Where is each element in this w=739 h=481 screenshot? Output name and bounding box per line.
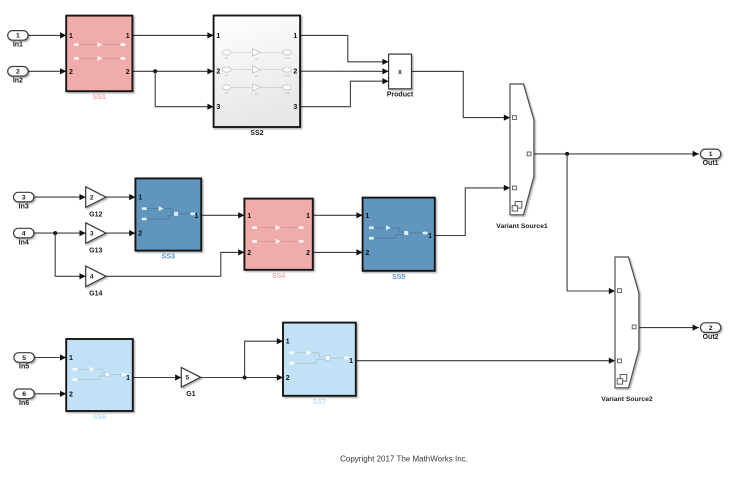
svg-text:1: 1	[126, 33, 130, 40]
svg-text:In3: In3	[19, 203, 29, 210]
wire G1 to SS7 in2	[201, 377, 283, 379]
subsystem SS5	[363, 198, 435, 271]
svg-text:1: 1	[709, 151, 713, 158]
wire Variant Source2 to Out2	[639, 327, 699, 329]
svg-text:G1: G1	[186, 391, 195, 398]
svg-text:1: 1	[286, 339, 290, 346]
svg-text:2: 2	[293, 69, 297, 76]
svg-text:1: 1	[69, 355, 73, 362]
svg-text:1: 1	[16, 33, 20, 40]
svg-text:In4: In4	[19, 239, 29, 246]
svg-text:Variant Source1: Variant Source1	[496, 223, 548, 230]
svg-text:2: 2	[247, 250, 251, 257]
wire branch to Variant Source2 in1	[567, 154, 615, 291]
svg-text:2: 2	[90, 195, 94, 202]
svg-text:1: 1	[306, 213, 310, 220]
wire branch to SS2 in3	[155, 71, 213, 106]
wire In2 to SS1	[28, 70, 66, 72]
junction on In4 wire	[53, 231, 57, 235]
svg-text:4: 4	[22, 230, 26, 237]
wire In4 to G13	[34, 232, 86, 234]
wire SS7 to Variant Source2 in2	[356, 360, 615, 362]
inport In5	[14, 353, 34, 363]
wire SS5 to Variant Source1 in2	[435, 188, 510, 236]
svg-text:G12: G12	[89, 211, 102, 218]
gain G1	[181, 368, 200, 388]
subsystem SS1	[66, 16, 132, 92]
subsystem SS4	[244, 199, 312, 270]
svg-text:In2: In2	[13, 78, 23, 85]
wire In5 to SS6 in1	[34, 357, 66, 359]
inport In3	[14, 192, 34, 202]
wire branch to SS7 in1	[245, 341, 283, 377]
svg-text:Out3: Out3	[284, 91, 290, 95]
wire In1 to SS1	[28, 34, 66, 36]
svg-text:3: 3	[216, 104, 220, 111]
wire SS2 out3 to Product in3	[300, 81, 389, 107]
svg-text:In6: In6	[19, 400, 29, 407]
svg-text:1: 1	[138, 195, 142, 202]
junction on SS1 out2 wire	[153, 69, 157, 73]
wire G14 to SS4 in2	[106, 252, 245, 276]
junction on G1 wire	[243, 376, 247, 380]
subsystem SS7	[283, 323, 356, 396]
svg-text:Variant Source2: Variant Source2	[601, 396, 653, 403]
svg-text:4: 4	[90, 274, 94, 281]
subsystem SS2	[214, 16, 301, 128]
svg-text:5: 5	[185, 375, 189, 382]
svg-text:SS6: SS6	[93, 414, 106, 421]
svg-text:In5: In5	[19, 364, 29, 371]
svg-text:Out2: Out2	[284, 73, 290, 77]
junction on Out1 wire	[565, 152, 569, 156]
wire G12 to SS3 in1	[106, 196, 135, 198]
inport In2	[8, 67, 28, 77]
svg-text:1: 1	[69, 33, 73, 40]
svg-text:SS3: SS3	[162, 254, 175, 261]
wire SS2 out1 to Product in1	[300, 35, 389, 61]
variant source Variant Source2	[615, 257, 639, 388]
svg-text:G13: G13	[89, 247, 102, 254]
svg-text:2: 2	[306, 250, 310, 257]
svg-text:SS5: SS5	[392, 274, 405, 281]
svg-text:3: 3	[293, 104, 297, 111]
svg-text:In1: In1	[13, 42, 23, 49]
svg-text:G7: G7	[255, 92, 259, 96]
svg-text:1: 1	[194, 213, 198, 220]
svg-text:In3: In3	[225, 91, 229, 95]
svg-text:SS4: SS4	[272, 273, 285, 280]
svg-text:6: 6	[22, 391, 26, 398]
wire SS3 to SS4 in1	[201, 214, 244, 216]
svg-text:Copyright 2017 The MathWorks I: Copyright 2017 The MathWorks Inc.	[340, 455, 468, 464]
svg-text:Out1: Out1	[703, 160, 719, 167]
wire In3 to G12	[34, 196, 86, 198]
svg-text:Out1: Out1	[284, 56, 290, 60]
svg-text:2: 2	[709, 325, 713, 332]
svg-text:1: 1	[247, 213, 251, 220]
wire Variant Source1 to Out1	[534, 153, 699, 155]
svg-text:1: 1	[126, 375, 130, 382]
svg-text:Out2: Out2	[703, 334, 719, 341]
product block Product	[389, 54, 412, 89]
subsystem SS3	[135, 178, 201, 250]
outport Out1	[700, 149, 720, 159]
wire In6 to SS6 in2	[34, 393, 66, 395]
gain G12	[86, 187, 106, 208]
wire SS4 out1 to SS5 in1	[313, 214, 363, 216]
wire SS6 to G1	[133, 377, 182, 379]
svg-text:3: 3	[90, 231, 94, 238]
inport In4	[14, 228, 34, 238]
svg-text:1: 1	[293, 33, 297, 40]
svg-text:G6: G6	[255, 74, 259, 78]
svg-text:1: 1	[349, 358, 353, 365]
svg-text:1: 1	[216, 33, 220, 40]
wire SS1 out1 to SS2 in1	[132, 34, 213, 36]
svg-text:x: x	[398, 69, 402, 76]
inport In1	[8, 31, 28, 41]
svg-text:Product: Product	[387, 91, 414, 98]
svg-text:3: 3	[22, 194, 26, 201]
wire G13 to SS3 in2	[106, 232, 135, 234]
svg-text:In1: In1	[225, 56, 229, 60]
gain G14	[86, 266, 106, 287]
svg-text:SS7: SS7	[313, 399, 326, 406]
svg-text:In2: In2	[225, 73, 229, 77]
svg-text:2: 2	[216, 69, 220, 76]
svg-text:1: 1	[428, 233, 432, 240]
wire SS4 out2 to SS5 in2	[313, 251, 363, 253]
svg-text:G5: G5	[255, 57, 259, 61]
svg-text:G14: G14	[89, 291, 102, 298]
variant source Variant Source1	[510, 84, 534, 215]
wire branch to G14	[55, 233, 85, 276]
wire SS1 out2 to SS2 in2	[132, 70, 213, 72]
svg-text:2: 2	[16, 69, 20, 76]
svg-text:5: 5	[22, 355, 26, 362]
svg-text:2: 2	[69, 391, 73, 398]
svg-text:SS2: SS2	[250, 130, 263, 137]
gain G13	[86, 223, 106, 244]
svg-text:2: 2	[365, 250, 369, 257]
svg-text:2: 2	[286, 375, 290, 382]
svg-text:2: 2	[69, 69, 73, 76]
inport In6	[14, 389, 34, 399]
svg-text:2: 2	[126, 69, 130, 76]
subsystem SS6	[66, 339, 133, 411]
svg-text:2: 2	[138, 231, 142, 238]
outport Out2	[700, 323, 720, 333]
svg-text:1: 1	[365, 213, 369, 220]
wire SS2 out2 to Product in2	[300, 70, 389, 72]
wire Product to Variant Source1 in1	[412, 71, 511, 117]
svg-text:SS1: SS1	[93, 94, 106, 101]
